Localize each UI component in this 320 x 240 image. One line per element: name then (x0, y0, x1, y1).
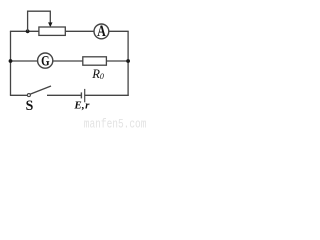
watermark manfen5.com (84, 118, 147, 132)
wire: rheostat to ammeter (65, 30, 93, 32)
wire: top rail from left corner to rheostat (10, 30, 39, 32)
node: junction on left rail (9, 59, 13, 63)
wire: bottom rail from switch contact to battery (47, 94, 81, 96)
svg-text:manfen5.com: manfen5.com (84, 118, 147, 131)
battery positive plate (long) (84, 89, 86, 102)
battery negative plate (short) (80, 92, 82, 98)
svg-text:R0: R0 (91, 67, 104, 81)
wire: right vertical rail (127, 31, 129, 96)
rheostat R (variable resistor body) (39, 27, 65, 35)
wire: bottom rail from left corner to switch (10, 94, 28, 96)
svg-text:G: G (41, 52, 50, 69)
svg-text:A: A (97, 22, 106, 40)
svg-text:E,r: E,r (73, 100, 90, 112)
wire: R0 to right rail (106, 60, 128, 62)
galvanometer G (38, 53, 53, 68)
resistor R0 body (83, 57, 107, 65)
label S (26, 98, 34, 115)
rheostat R slider arrowhead (48, 22, 52, 27)
wire: battery to bottom-right corner (85, 94, 129, 96)
node: junction on right rail (126, 59, 130, 63)
ammeter A (94, 24, 109, 39)
node: junction of slider wire on top rail (26, 29, 30, 33)
wire: left vertical rail (10, 31, 12, 95)
wire: galvanometer to R0 (53, 60, 83, 62)
wire: middle rail from left rail to galvanometer (11, 60, 38, 62)
wire: rheostat slider loop (28, 11, 51, 31)
switch S blade (open) (30, 86, 51, 94)
svg-text:S: S (26, 98, 34, 115)
switch S pivot (27, 94, 30, 97)
wire: ammeter to top-right corner (109, 30, 129, 32)
